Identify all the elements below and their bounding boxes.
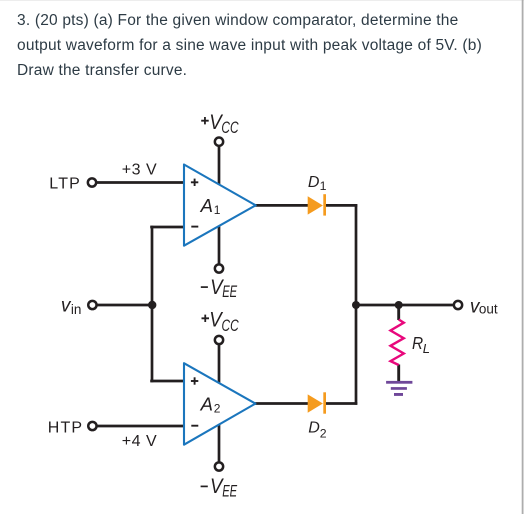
junction: vin node on input bus [148, 301, 156, 309]
resistor RL [391, 320, 404, 366]
label RL [412, 334, 430, 356]
terminal Vout [454, 301, 462, 309]
label vout [470, 296, 498, 317]
svg-text:+4 V: +4 V [122, 433, 157, 450]
svg-text:+3 V: +3 V [122, 162, 157, 179]
svg-text:D: D [308, 420, 320, 437]
label D1 [308, 174, 327, 193]
label vin [61, 296, 82, 317]
svg-text:2: 2 [320, 426, 327, 440]
svg-text:in: in [71, 302, 82, 317]
op-amp A2 [184, 363, 255, 445]
svg-text:R: R [412, 334, 423, 353]
label -VEE (A1 supply) [201, 276, 238, 302]
wire: A1 to -VEE supply [218, 224, 221, 264]
svg-text:out: out [479, 302, 498, 317]
svg-text:L: L [423, 341, 430, 356]
wire: LTP to A1 noninverting input [97, 181, 186, 184]
svg-text:A: A [200, 195, 213, 216]
wire: A1 output to D1 anode [254, 204, 310, 207]
problem statement text [17, 8, 482, 83]
wire: HTP to A2 inverting input [97, 425, 185, 428]
wire: vertical input bus (vin node) [151, 226, 154, 383]
wire: RL bottom stub to ground [397, 365, 400, 382]
wire: A1 inverting input to vertical bus [150, 226, 185, 229]
svg-text:CC: CC [222, 317, 240, 335]
svg-text:A: A [200, 393, 213, 414]
junction: output node at right bus [352, 301, 360, 309]
svg-text:2: 2 [214, 401, 221, 415]
op-amp A1 [184, 165, 256, 246]
wire: RL top stub [397, 305, 400, 320]
terminal -VEE (A1) [215, 264, 223, 272]
svg-text:LTP: LTP [49, 175, 81, 192]
diode D1 [308, 194, 326, 215]
label D2 [308, 420, 327, 441]
svg-text:D: D [308, 174, 320, 191]
page top border [0, 0, 524, 1]
ground [386, 381, 412, 396]
terminal LTP [88, 178, 96, 186]
wire: +VCC supply to A1 [218, 146, 221, 186]
label +VCC (A2 supply) [202, 308, 240, 335]
label -VEE (A2 supply) [201, 475, 238, 501]
wire: +VCC supply to A2 [218, 345, 221, 386]
diode D2 [308, 392, 326, 413]
terminal Vin [88, 301, 96, 309]
terminal HTP [88, 422, 96, 430]
terminal -VEE (A2) [215, 462, 223, 470]
svg-text:1: 1 [214, 203, 221, 217]
svg-text:1: 1 [320, 179, 327, 193]
wire: vertical bus to A2 noninverting input [150, 380, 185, 383]
junction: RL connection on output line [395, 301, 403, 309]
wire: right vertical bus (output node) [355, 204, 358, 405]
svg-text:CC: CC [221, 119, 239, 137]
wire: A2 output to D2 anode [254, 402, 311, 405]
label +VCC (A1 supply) [201, 111, 239, 138]
svg-text:EE: EE [222, 283, 237, 302]
terminal +VCC (A2) [215, 336, 223, 344]
svg-text:HTP: HTP [48, 419, 84, 436]
terminal +VCC (A1) [215, 138, 223, 146]
wire: Vin terminal to bus junction [97, 304, 153, 307]
svg-text:EE: EE [222, 482, 237, 501]
wire: output node to Vout terminal [356, 304, 454, 307]
wire: A2 to -VEE supply [218, 423, 221, 463]
page right border [522, 0, 524, 514]
wire: D1 cathode to right bus [324, 204, 357, 207]
wire: D2 cathode to right bus [324, 402, 357, 405]
